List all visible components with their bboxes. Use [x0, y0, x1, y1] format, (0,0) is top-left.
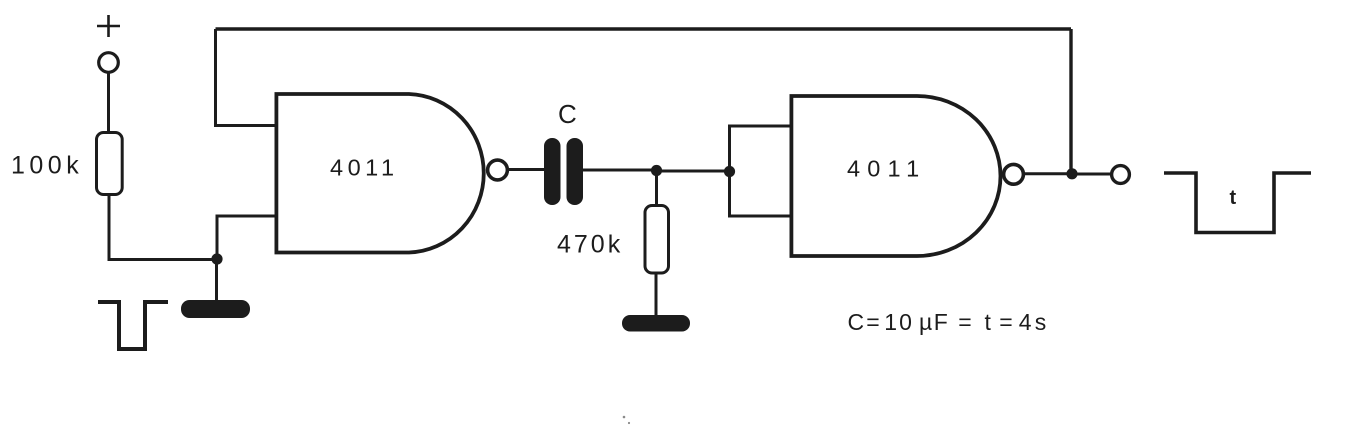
U1b output bubble	[1004, 164, 1024, 184]
resistor R2	[645, 206, 669, 274]
wire feedback top	[216, 27, 1072, 30]
wire node B to node C	[656, 170, 729, 173]
power + symbol	[97, 15, 120, 37]
wire R2 to ground	[655, 275, 658, 318]
svg-text:100k: 100k	[11, 152, 83, 180]
wire node D to output terminal	[1072, 173, 1111, 176]
wire U1a output to capacitor	[508, 168, 545, 171]
resistor R1	[97, 133, 123, 195]
svg-text:4011: 4011	[847, 156, 926, 182]
output terminal circle	[1112, 166, 1130, 184]
wire input bracket vertical	[728, 125, 731, 218]
wire terminal to R1	[107, 74, 110, 132]
node B	[651, 165, 662, 176]
svg-text:t: t	[1230, 187, 1237, 209]
ground	[622, 315, 690, 332]
wire node A to gate1 lower input	[217, 216, 277, 259]
power terminal circle	[99, 53, 119, 73]
wire node B to R2	[655, 171, 658, 206]
capacitor C plate 2	[567, 138, 584, 205]
wire capacitor to node B	[583, 169, 656, 172]
svg-text:4011: 4011	[330, 155, 399, 181]
node C	[724, 166, 735, 177]
node D	[1066, 168, 1077, 179]
wire feedback left down to gate1 upper input	[216, 29, 278, 126]
NAND gate U1a	[276, 94, 483, 253]
trigger pulse symbol	[98, 302, 168, 349]
node A	[211, 253, 222, 264]
wire node A to ground	[215, 259, 218, 302]
svg-text:C: C	[558, 99, 577, 129]
wire bracket to U1b lower input	[730, 215, 793, 218]
ground	[181, 300, 250, 318]
wire U1b output to node D	[1025, 172, 1072, 175]
wire feedback vertical	[1069, 29, 1072, 174]
svg-text:470k: 470k	[557, 231, 623, 259]
scan speck	[623, 416, 630, 424]
capacitor C plate 1	[544, 138, 561, 205]
output pulse waveform	[1164, 173, 1311, 233]
U1a output bubble	[488, 160, 508, 180]
wire R1 to node A	[109, 196, 213, 260]
wire bracket to U1b upper input	[730, 125, 793, 128]
NAND gate U1b	[791, 96, 1000, 256]
